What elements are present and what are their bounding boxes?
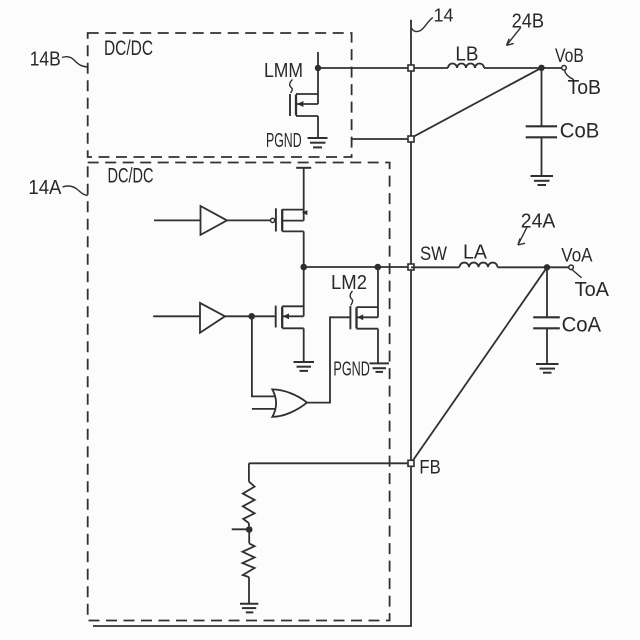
label ToB — [568, 77, 602, 99]
junction dot: SW rail at LM2 column — [375, 264, 382, 271]
terminal square: SW node on bus — [408, 264, 414, 270]
svg-text:FB: FB — [419, 457, 440, 478]
wire: leader squiggle 14A to box — [63, 186, 88, 195]
ground PGND (box 14A) — [370, 363, 390, 372]
ground below divider — [240, 604, 258, 613]
svg-text:LM2: LM2 — [331, 272, 367, 294]
label LMM — [264, 60, 303, 82]
wire: OR gate lower input stub — [252, 408, 275, 410]
label VoB — [555, 46, 584, 67]
label 24A — [521, 209, 556, 232]
node VoA junction dot — [544, 264, 550, 270]
wire: leader from VoB terminal to ToB — [565, 71, 575, 80]
label DC/DC (top box) — [104, 37, 153, 60]
wire: leader squiggle LM2 to gate — [350, 291, 352, 305]
svg-text:LB: LB — [455, 44, 478, 66]
label LM2 — [331, 272, 367, 294]
ground below CoA — [536, 364, 559, 373]
box: DC/DC converter 14B dashed outline — [88, 33, 352, 157]
svg-text:VoA: VoA — [561, 246, 592, 267]
ground below CoB — [531, 176, 554, 185]
wire: SW to inductor LA — [411, 266, 460, 268]
terminal circle at VoA output — [569, 265, 574, 270]
svg-text:14B: 14B — [30, 49, 61, 71]
buffer driver U2 (bottom) — [153, 303, 252, 333]
wire: divider tap stub — [232, 528, 249, 530]
resistor R2 (lower divider) — [243, 530, 255, 604]
svg-text:14: 14 — [434, 6, 454, 26]
junction dot: buffer U2 output — [248, 313, 255, 320]
svg-text:DC/DC: DC/DC — [104, 37, 153, 60]
label PGND (top) — [266, 130, 302, 152]
ground below M2 — [294, 362, 315, 371]
wire: inductor LA to node VoA — [498, 266, 569, 268]
buffer driver U1 (top) — [154, 206, 271, 235]
transistor LMM (NMOS in box 14B) — [290, 52, 318, 138]
svg-text:PGND: PGND — [266, 130, 302, 152]
inductor LA — [460, 263, 498, 268]
ground PGND (box 14B) — [308, 138, 328, 147]
label VoA — [561, 246, 592, 267]
terminal square: bus node at row B feedback — [408, 136, 414, 142]
resistor R1 (upper divider) — [243, 463, 255, 526]
label CoA — [562, 314, 602, 337]
wire: U2 output down to OR gate input — [252, 316, 275, 396]
wire: leader squiggle LMM to gate — [290, 80, 293, 94]
svg-text:LMM: LMM — [264, 60, 303, 82]
label 24B — [512, 10, 544, 32]
capacitor CoB — [526, 68, 557, 176]
wire: U2 output to M2 gate — [252, 315, 276, 317]
junction dot: divider tap — [246, 526, 253, 533]
svg-text:LA: LA — [463, 242, 488, 264]
label DC/DC (bottom box) — [108, 165, 154, 188]
wire: inductor LB to node VoB — [484, 67, 562, 69]
junction dot: SW rail at M1/M2 column — [300, 264, 307, 271]
svg-text:14A: 14A — [28, 177, 62, 199]
wire: feedback stub from box 14B to bus node — [352, 138, 411, 140]
power stub terminal above PMOS M1 — [296, 168, 311, 221]
wire: leader from VoA terminal to ToA — [572, 270, 581, 278]
node VoB junction dot — [538, 65, 544, 71]
wire: OR gate output to LM2 gate — [307, 317, 350, 402]
wire: arrow from 24B label — [507, 27, 521, 45]
wire: SW rail inside box 14A — [304, 266, 411, 268]
label FB — [419, 457, 440, 478]
label LB — [455, 44, 478, 66]
wire: M1 source down to SW rail — [303, 231, 305, 267]
wire: diagonal from bus node to VoB — [413, 68, 542, 137]
wire: leader squiggle 14B to box — [62, 57, 88, 67]
label CoB — [560, 120, 600, 143]
label PGND (bottom) — [333, 358, 370, 380]
capacitor CoA — [533, 267, 560, 363]
junction dot: LMM drain to row B wire — [315, 65, 321, 71]
inductor LB — [448, 64, 484, 68]
svg-text:PGND: PGND — [333, 358, 370, 380]
transistor LM2 (NMOS) — [350, 267, 378, 363]
svg-text:CoB: CoB — [560, 120, 600, 143]
label LA — [463, 242, 488, 264]
svg-text:ToB: ToB — [568, 77, 602, 99]
terminal square: FB node on bus — [408, 460, 414, 466]
wire: row B from LMM drain to inductor LB — [318, 67, 448, 69]
label ToA — [575, 279, 610, 301]
svg-text:ToA: ToA — [575, 279, 610, 301]
transistor M2 (NMOS, lower left) — [276, 267, 304, 362]
terminal circle at VoB output — [562, 66, 567, 71]
svg-text:DC/DC: DC/DC — [108, 165, 154, 188]
svg-text:SW: SW — [420, 243, 448, 265]
svg-text:CoA: CoA — [562, 314, 602, 337]
label 14B — [30, 49, 61, 71]
terminal square: bus node at row B — [408, 65, 414, 71]
transistor M1 (PMOS, top of box 14A) — [271, 208, 308, 231]
wire: main vertical bus 14 with bottom return rail — [93, 20, 411, 626]
svg-text:24B: 24B — [512, 10, 544, 32]
label SW — [420, 243, 448, 265]
wire: arrow from 24A label — [518, 227, 527, 245]
wire: diagonal from FB node to VoA — [413, 267, 547, 461]
svg-text:VoB: VoB — [555, 46, 584, 67]
wire: leader squiggle for 14 — [412, 17, 433, 31]
label 14A — [28, 177, 62, 199]
node 14 label — [434, 6, 454, 26]
wire: feedback row from divider to FB node — [249, 462, 411, 464]
box: DC/DC converter 14A dashed outline — [88, 163, 390, 621]
OR gate G1 — [272, 389, 307, 417]
